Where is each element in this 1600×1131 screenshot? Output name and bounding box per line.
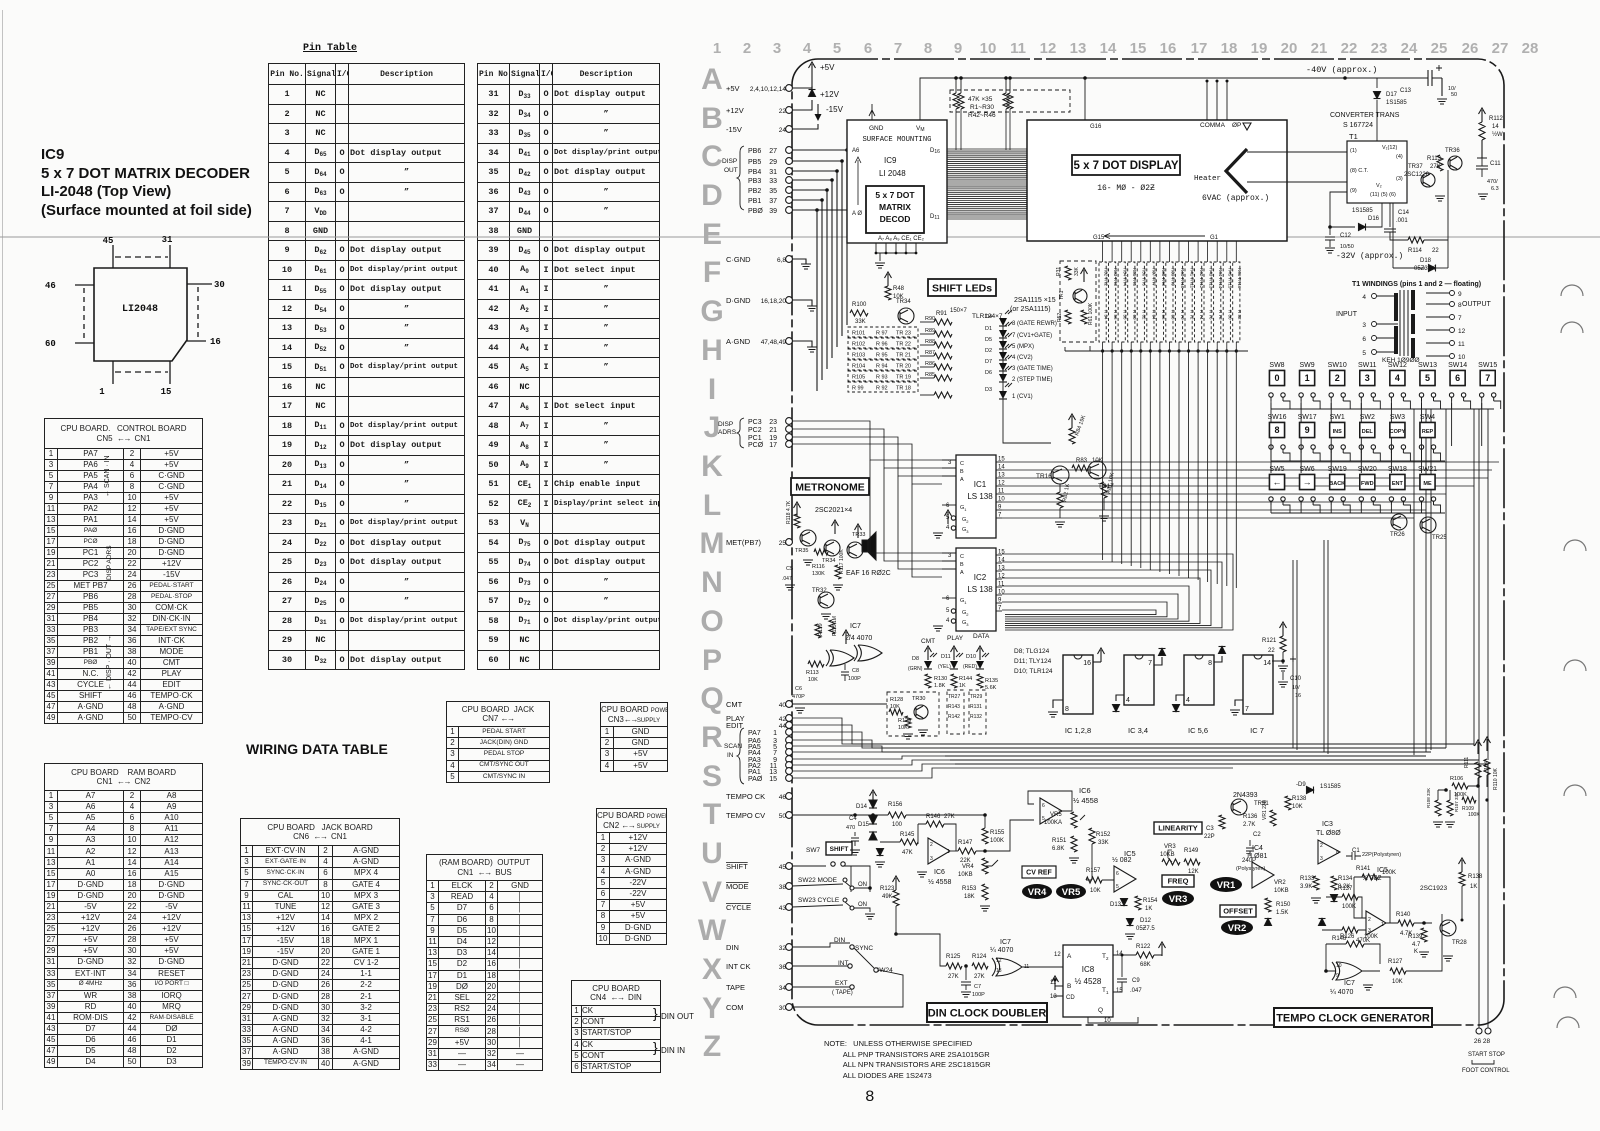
svg-text:R119: R119 (818, 623, 824, 636)
svg-text:33K: 33K (1098, 840, 1109, 846)
svg-text:R 68: R 68 (1170, 310, 1175, 320)
svg-text:R124: R124 (972, 954, 987, 960)
svg-text:C·GND: C·GND (726, 255, 751, 264)
svg-text:SW11: SW11 (1358, 362, 1377, 369)
svg-text:46: 46 (45, 281, 56, 291)
svg-text:10K: 10K (808, 677, 818, 683)
svg-text:A: A (960, 477, 964, 483)
svg-text:22P: 22P (1204, 834, 1215, 840)
svg-text:C14: C14 (1398, 210, 1410, 216)
svg-text:C5: C5 (786, 566, 793, 572)
resistor R100 33K (850, 310, 868, 316)
svg-text:9: 9 (954, 40, 962, 57)
svg-text:7: 7 (1458, 315, 1462, 322)
svg-text:30: 30 (214, 280, 225, 290)
svg-text:S: S (702, 760, 722, 793)
speaker EAF16R02C (862, 532, 876, 560)
capacitor C13 (1396, 77, 1420, 79)
svg-text:(9): (9) (1350, 188, 1357, 194)
svg-text:IC 5,6: IC 5,6 (1188, 726, 1208, 735)
op IC2 LS138 (956, 548, 996, 631)
svg-text:(YEL): (YEL) (938, 664, 951, 670)
svg-text:ØP: ØP (1232, 122, 1241, 129)
resistor R141 (1362, 874, 1378, 880)
svg-text:PC1: PC1 (748, 435, 762, 442)
wire: page crease line (0, 236, 1600, 238)
svg-text:10: 10 (980, 40, 997, 57)
svg-text:IC3: IC3 (1322, 821, 1333, 828)
svg-text:P: P (702, 644, 722, 677)
svg-text:TR 23: TR 23 (896, 331, 911, 337)
svg-text:1S1585: 1S1585 (1386, 100, 1407, 106)
svg-text:R86: R86 (925, 361, 935, 367)
wire junction row under resistor array (1065, 350, 1248, 352)
svg-text:R87: R87 (925, 350, 935, 356)
svg-text:15: 15 (998, 550, 1005, 556)
svg-text:1: 1 (713, 40, 721, 57)
svg-text:10KB: 10KB (958, 872, 973, 878)
wire nested outputs IC1 to switch columns (1002, 461, 1499, 463)
svg-text:R 80: R 80 (1228, 310, 1233, 320)
svg-text:27K: 27K (948, 974, 959, 980)
wire nested band IC2 outputs (1002, 554, 1233, 630)
svg-text:-D9: -D9 (1296, 782, 1306, 788)
svg-text:D4: D4 (985, 314, 992, 320)
svg-text:1S1585: 1S1585 (1352, 208, 1373, 214)
svg-text:C12: C12 (1340, 233, 1352, 239)
svg-text:D16: D16 (1368, 216, 1380, 222)
svg-text:VM: VM (916, 125, 925, 133)
svg-text:2.7K: 2.7K (1243, 822, 1255, 828)
svg-text:R38 TR8: R38 TR8 (1161, 268, 1166, 286)
resistor R114 (1390, 232, 1408, 240)
resistor R154 (1135, 896, 1141, 910)
svg-text:18: 18 (1221, 40, 1238, 57)
svg-text:R146: R146 (926, 814, 941, 820)
svg-text:ON: ON (858, 882, 867, 888)
resistor R157 (1086, 877, 1102, 883)
svg-text:VR1: VR1 (1217, 880, 1236, 891)
resistor R122 (1113, 954, 1136, 956)
svg-text:7: 7 (1148, 660, 1152, 667)
decorative scan edge (2, 10, 4, 1110)
svg-text:15: 15 (1130, 40, 1147, 57)
svg-text:R52: R52 (1057, 313, 1063, 322)
svg-text:K: K (1414, 949, 1418, 955)
svg-text:27: 27 (769, 148, 777, 155)
svg-text:47K ×35: 47K ×35 (968, 96, 993, 103)
svg-text:R 82: R 82 (1237, 310, 1242, 320)
resistor R140 (1398, 920, 1414, 926)
svg-text:IC7: IC7 (1000, 939, 1011, 946)
svg-text:7: 7 (773, 750, 777, 757)
svg-text:PA7: PA7 (748, 730, 761, 737)
svg-text:12: 12 (996, 958, 1002, 964)
svg-text:12: 12 (998, 574, 1005, 580)
pot VR3 oval (1162, 891, 1194, 906)
svg-text:4: 4 (1395, 373, 1400, 383)
svg-text:7 (CV1+GATE): 7 (CV1+GATE) (1012, 333, 1052, 339)
svg-text:3 (GATE TIME): 3 (GATE TIME) (1012, 366, 1053, 372)
svg-text:IC6: IC6 (934, 869, 945, 876)
svg-text:6: 6 (864, 40, 872, 57)
svg-text:SW14: SW14 (1448, 362, 1467, 369)
svg-text:TR27: TR27 (948, 694, 960, 700)
resistor R83 (1072, 465, 1088, 471)
label CV REF (1022, 866, 1056, 878)
svg-text:24: 24 (1401, 40, 1418, 57)
svg-text:R142: R142 (948, 714, 960, 720)
resistor bank R31 R52 R61 TR1 (1060, 261, 1096, 342)
svg-text:½ 4558: ½ 4558 (928, 878, 951, 886)
svg-text:C: C (960, 554, 964, 560)
pot VR1 22B vertical (1270, 810, 1276, 826)
svg-text:+5V: +5V (820, 63, 835, 72)
svg-text:VR2: VR2 (1228, 923, 1246, 934)
svg-text:10K: 10K (1392, 979, 1403, 985)
svg-text:OUT: OUT (724, 167, 738, 174)
svg-text:7: 7 (894, 40, 902, 57)
svg-text:CMT: CMT (921, 638, 935, 645)
svg-text:B: B (960, 469, 964, 475)
svg-text:1: 1 (1381, 922, 1384, 928)
resistor rows R99-R105 with TR18-TR23 (848, 327, 918, 337)
svg-text:R107 33K: R107 33K (1454, 792, 1459, 812)
diode D13 (1121, 899, 1128, 906)
svg-text:R45 TR15: R45 TR15 (1228, 268, 1233, 289)
svg-text:PB5: PB5 (748, 159, 761, 166)
svg-text:ENT: ENT (1392, 481, 1404, 487)
svg-text:CYCLE: CYCLE (726, 903, 751, 912)
svg-text:11: 11 (1458, 341, 1465, 348)
pot VR1 oval (1210, 877, 1242, 892)
svg-text:C3: C3 (1206, 826, 1214, 832)
svg-text:R46 TR16: R46 TR16 (1237, 268, 1242, 289)
svg-text:17: 17 (769, 442, 777, 449)
resistor R155 (982, 828, 988, 844)
svg-text:R31: R31 (1056, 267, 1062, 276)
svg-text:TR 18: TR 18 (896, 386, 911, 392)
svg-text:R150: R150 (1276, 902, 1291, 908)
svg-text:R156: R156 (888, 802, 903, 808)
resistor R127 (1390, 968, 1406, 974)
transistor TR17 (1088, 461, 1106, 479)
svg-text:4: 4 (1362, 294, 1366, 301)
svg-text:3: 3 (773, 40, 781, 57)
svg-text:VR5: VR5 (1050, 812, 1062, 818)
svg-text:SW19: SW19 (1328, 466, 1347, 473)
svg-text:VR5: VR5 (1062, 887, 1081, 898)
resistor R126 (1346, 941, 1364, 947)
svg-text:8 (GATE REWR): 8 (GATE REWR) (1012, 321, 1057, 327)
svg-text:5 x 7 DOT: 5 x 7 DOT (875, 190, 915, 200)
svg-text:MODE: MODE (726, 882, 749, 891)
svg-text:6: 6 (946, 503, 950, 509)
resistor R118 (794, 514, 800, 528)
svg-text:←: ← (1273, 477, 1282, 487)
svg-text:R 60: R 60 (1132, 310, 1137, 320)
svg-text:B: B (1067, 983, 1071, 990)
svg-text:TR32: TR32 (812, 588, 827, 594)
svg-text:100K: 100K (1364, 934, 1378, 940)
resistor R138b 1K (1459, 872, 1465, 886)
svg-text:TR29: TR29 (970, 694, 982, 700)
svg-text:IC1: IC1 (974, 480, 987, 489)
transistor TR25 (1420, 517, 1436, 533)
svg-text:D6: D6 (985, 370, 992, 376)
svg-text:6: 6 (1362, 336, 1366, 343)
svg-text:100P: 100P (848, 676, 861, 682)
pot VR4 oval (1022, 884, 1052, 899)
decorative arcs skipped labels (1561, 285, 1583, 296)
transistor TR35 (800, 530, 816, 546)
svg-text:5: 5 (1116, 884, 1119, 890)
svg-text:R 94: R 94 (876, 364, 888, 370)
svg-text:D8; TLG124: D8; TLG124 (1014, 648, 1050, 655)
svg-text:3: 3 (948, 460, 952, 466)
svg-text:6: 6 (946, 596, 950, 602)
svg-text:TR34: TR34 (896, 299, 911, 305)
wire -40V rail (1345, 77, 1396, 79)
IC LI2048 package top view (94, 268, 187, 361)
svg-text:-40V (approx.): -40V (approx.) (1306, 65, 1377, 75)
svg-text:L: L (703, 489, 721, 522)
svg-text:D13: D13 (1110, 902, 1122, 908)
schematic border frame (792, 59, 1504, 1025)
svg-text:4: 4 (946, 618, 950, 624)
svg-text:R128: R128 (890, 697, 903, 703)
svg-text:G3: G3 (962, 620, 969, 627)
svg-text:470: 470 (846, 825, 855, 831)
svg-text:ON: ON (858, 902, 867, 908)
svg-text:SW21: SW21 (1418, 466, 1437, 473)
pot VR5 oval (1056, 884, 1086, 899)
svg-text:DEL: DEL (1362, 429, 1374, 435)
resistor R148 (1342, 927, 1358, 933)
resistor R136 (1219, 815, 1225, 829)
svg-text:47K: 47K (902, 850, 913, 856)
svg-text:C6: C6 (795, 686, 802, 692)
svg-text:10KB: 10KB (1274, 888, 1289, 894)
resistor R151 (1071, 836, 1077, 852)
svg-text:PA1: PA1 (748, 769, 761, 776)
svg-text:DATA: DATA (973, 633, 990, 640)
svg-text:½ 4528: ½ 4528 (1075, 977, 1102, 986)
svg-text:27K: 27K (1430, 164, 1441, 170)
svg-text:TR30: TR30 (912, 696, 925, 702)
svg-text:INS: INS (1333, 429, 1343, 435)
svg-text:9: 9 (1336, 973, 1339, 979)
svg-text:D12: D12 (1140, 918, 1152, 924)
svg-text:PAØ: PAØ (748, 776, 763, 783)
svg-text:R138: R138 (1292, 796, 1307, 802)
resistor R150 (1265, 898, 1271, 912)
svg-text:R132: R132 (970, 714, 982, 720)
svg-text:5: 5 (1362, 350, 1366, 357)
svg-text:R101: R101 (852, 331, 865, 337)
svg-text:R 72: R 72 (1189, 310, 1194, 320)
svg-text:R155: R155 (990, 830, 1005, 836)
svg-text:1.8K: 1.8K (934, 683, 946, 689)
label METRONOME (791, 478, 869, 495)
svg-text:SW1: SW1 (1330, 414, 1345, 421)
resistor R125 (946, 963, 962, 969)
svg-text:IC2: IC2 (974, 573, 987, 582)
svg-text:R153: R153 (962, 886, 977, 892)
svg-text:4.7: 4.7 (1412, 942, 1421, 948)
svg-text:R42~R46: R42~R46 (968, 112, 996, 119)
svg-text:R 78: R 78 (1218, 310, 1223, 320)
svg-text:O: O (700, 605, 723, 638)
svg-text:G: G (700, 295, 723, 328)
svg-text:SHIFT: SHIFT (726, 862, 748, 871)
svg-text:31: 31 (162, 235, 173, 245)
label LINEARITY (1154, 822, 1202, 834)
op-amp IC6b 4558 (1040, 798, 1062, 824)
svg-text:R32 TR2: R32 TR2 (1104, 268, 1109, 286)
svg-text:14: 14 (998, 558, 1005, 564)
svg-text:T1: T1 (1349, 132, 1358, 141)
svg-text:R34 TR4: R34 TR4 (1123, 268, 1128, 286)
svg-text:D10; TLR124: D10; TLR124 (1014, 668, 1053, 675)
svg-text:R114: R114 (1408, 248, 1423, 254)
svg-text:6.3: 6.3 (1491, 186, 1499, 192)
svg-text:TR36: TR36 (1445, 148, 1460, 154)
svg-text:TR 19: TR 19 (896, 375, 911, 381)
svg-text:IC4: IC4 (1252, 845, 1263, 852)
svg-text:12: 12 (1458, 328, 1466, 335)
svg-text:R61 100K: R61 100K (1088, 302, 1094, 325)
svg-text:IC 7: IC 7 (1250, 726, 1264, 735)
resistor R144 (951, 674, 957, 688)
svg-text:PC3: PC3 (748, 419, 762, 426)
svg-text:C11: C11 (1490, 161, 1501, 167)
svg-text:R126: R126 (1340, 934, 1355, 940)
svg-text:100P: 100P (972, 992, 985, 998)
transistor TR26 (1391, 514, 1407, 530)
svg-text:DISP: DISP (722, 158, 737, 165)
svg-text:PA4: PA4 (748, 750, 761, 757)
svg-text:R118 4.7K: R118 4.7K (786, 500, 792, 524)
resistor R133 (1313, 876, 1319, 890)
svg-text:R90: R90 (925, 316, 935, 322)
svg-text:→: → (1303, 477, 1312, 487)
svg-text:E: E (702, 218, 722, 251)
svg-text:R39 TR9: R39 TR9 (1170, 268, 1175, 286)
node grid column numbers 1-28 (713, 40, 1539, 57)
svg-text:A₇ A₈ A₉ CE₁ CE₂: A₇ A₈ A₉ CE₁ CE₂ (878, 236, 925, 242)
svg-text:C: C (960, 461, 964, 467)
svg-text:C1: C1 (1352, 848, 1360, 854)
label TEMPO CLOCK GENERATOR (1274, 1008, 1432, 1027)
svg-text:33: 33 (769, 178, 777, 185)
svg-text:START STOP: START STOP (1468, 1052, 1505, 1058)
svg-text:COM: COM (726, 1003, 744, 1012)
svg-text:R149: R149 (1184, 848, 1199, 854)
svg-text:TR 21: TR 21 (896, 353, 911, 359)
svg-text:7: 7 (1485, 373, 1490, 383)
svg-text:12: 12 (1054, 952, 1061, 958)
svg-text:IC 1,2,8: IC 1,2,8 (1065, 726, 1091, 735)
svg-text:R111: R111 (1464, 757, 1470, 768)
svg-text:OFFSET: OFFSET (1223, 907, 1253, 916)
svg-text:V₂: V₂ (1376, 183, 1382, 189)
svg-text:15: 15 (769, 776, 777, 783)
svg-text:R36 TR6: R36 TR6 (1142, 268, 1147, 286)
svg-text:EXT: EXT (835, 980, 848, 987)
svg-text:1K: 1K (959, 683, 966, 689)
svg-text:TR28: TR28 (1452, 940, 1467, 946)
svg-text:R 92: R 92 (876, 386, 888, 392)
svg-text:33K: 33K (1074, 266, 1080, 276)
svg-text:R133: R133 (1300, 876, 1315, 882)
svg-text:100: 100 (892, 822, 903, 828)
svg-text:Y: Y (702, 992, 722, 1025)
svg-text:22: 22 (1268, 648, 1275, 654)
svg-text:ADRS: ADRS (718, 429, 737, 436)
svg-text:A Ø: A Ø (852, 211, 862, 217)
svg-text:5: 5 (1425, 373, 1430, 383)
svg-text:R43 TR13: R43 TR13 (1209, 268, 1214, 289)
svg-text:C2: C2 (1253, 832, 1261, 838)
svg-text:(4): (4) (1396, 154, 1403, 160)
svg-text:+12V: +12V (820, 90, 840, 99)
svg-text:4: 4 (1126, 697, 1130, 704)
svg-text:15: 15 (161, 387, 172, 397)
svg-text:5 x 7 DOT DISPLAY: 5 x 7 DOT DISPLAY (1073, 160, 1178, 172)
svg-text:COPY: COPY (1390, 429, 1406, 435)
heater chevron (1226, 149, 1247, 193)
svg-text:FREQ: FREQ (1168, 877, 1189, 886)
svg-text:SW13: SW13 (1418, 362, 1437, 369)
svg-text:SW12: SW12 (1388, 362, 1407, 369)
svg-text:13: 13 (769, 769, 777, 776)
svg-text:2: 2 (743, 40, 751, 57)
svg-text:VR3: VR3 (1164, 844, 1176, 850)
diode D17 (1376, 78, 1378, 88)
svg-text:SW16: SW16 (1267, 414, 1286, 421)
svg-text:R138: R138 (1468, 874, 1483, 880)
svg-text:R42 TR12: R42 TR12 (1199, 268, 1204, 289)
svg-text:Q: Q (700, 682, 723, 715)
resistor R139 (1421, 928, 1427, 942)
svg-text:Z: Z (703, 1030, 721, 1063)
svg-text:D·GND: D·GND (726, 296, 751, 305)
svg-text:SW20: SW20 (1358, 466, 1377, 473)
resistor R116 (814, 549, 828, 555)
resistor R112 (1479, 108, 1486, 114)
svg-text:14: 14 (1263, 660, 1271, 667)
svg-text:16: 16 (1083, 660, 1091, 667)
resistor R147 (950, 850, 958, 852)
svg-text:6: 6 (1455, 373, 1460, 383)
svg-text:SW3: SW3 (1390, 414, 1405, 421)
svg-text:R 99: R 99 (852, 386, 864, 392)
svg-text:26 28: 26 28 (1474, 1038, 1491, 1045)
svg-text:60: 60 (45, 339, 56, 349)
svg-text:16: 16 (1295, 693, 1301, 699)
svg-text:6.8K: 6.8K (1052, 846, 1064, 852)
svg-text:LINEARITY: LINEARITY (1158, 824, 1198, 833)
svg-text:D17: D17 (1386, 92, 1398, 98)
svg-text:27K: 27K (974, 974, 985, 980)
svg-text:22: 22 (1341, 40, 1358, 57)
wire CMT run (792, 703, 887, 705)
svg-text:1: 1 (947, 849, 950, 855)
svg-text:21: 21 (769, 427, 777, 434)
svg-text:D11: D11 (930, 214, 940, 221)
svg-text:LS 138: LS 138 (967, 585, 993, 594)
